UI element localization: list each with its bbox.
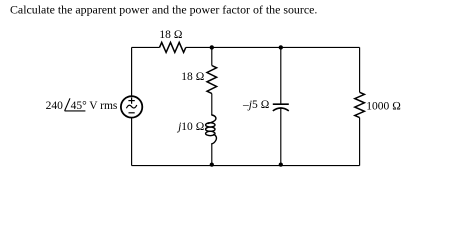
svg-text:45°: 45° — [71, 100, 88, 112]
label 18 ohm (middle) — [181, 71, 204, 83]
label -j5 ohm — [242, 99, 270, 111]
wire middle branch between resistor and inductor — [211, 94, 213, 116]
label 240 angle 45 V rms — [46, 98, 118, 112]
wire left lower (source to bottom) — [131, 118, 133, 166]
wire right branch lower — [359, 118, 361, 166]
wire bottom — [132, 165, 360, 167]
wire top-left segment — [132, 46, 160, 48]
wire capacitor branch upper — [280, 47, 282, 104]
wire left upper (source to top) — [131, 47, 133, 96]
svg-text:18 Ω: 18 Ω — [181, 71, 204, 83]
svg-text:j10 Ω: j10 Ω — [176, 121, 205, 133]
capacitor -j5 ohm — [273, 104, 289, 111]
junction top-middle — [210, 45, 214, 49]
svg-text:1000 Ω: 1000 Ω — [366, 100, 401, 112]
problem text — [10, 3, 317, 17]
svg-text:Calculate the apparent power a: Calculate the apparent power and the pow… — [10, 3, 317, 17]
label 18 ohm (top) — [159, 29, 182, 41]
resistor 18 ohm horizontal — [160, 42, 186, 52]
svg-text:240: 240 — [46, 100, 64, 112]
label 1000 ohm — [366, 100, 401, 112]
wire top-right segment — [186, 46, 360, 48]
resistor 18 ohm vertical — [207, 66, 217, 94]
svg-text:V rms: V rms — [89, 100, 118, 112]
inductor j10 ohm — [206, 115, 217, 144]
junction bottom-capacitor — [279, 163, 283, 167]
svg-text:–j5 Ω: –j5 Ω — [242, 99, 270, 111]
wire middle branch upper — [211, 47, 213, 65]
junction top-capacitor — [279, 45, 283, 49]
wire right branch upper — [359, 47, 361, 92]
wire capacitor branch lower — [280, 108, 282, 165]
wire middle branch lower — [211, 144, 213, 166]
label j10 ohm — [176, 121, 205, 133]
voltage source VS — [121, 96, 142, 117]
svg-text:18 Ω: 18 Ω — [159, 29, 182, 41]
junction bottom-middle — [210, 163, 214, 167]
resistor 1000 ohm — [355, 92, 365, 117]
